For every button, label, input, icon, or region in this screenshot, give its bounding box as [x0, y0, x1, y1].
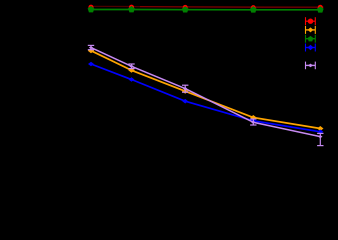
- orange series line (descending): [91, 51, 320, 129]
- violet series line (descending): [91, 48, 320, 137]
- violet marker 1: [89, 46, 93, 49]
- green marker 5: [317, 6, 324, 12]
- violet marker 3: [183, 87, 187, 90]
- blue marker 2: [129, 77, 135, 82]
- legend entry green: [306, 35, 316, 43]
- violet error bar 5: [317, 133, 323, 145]
- legend entry red: [306, 17, 316, 25]
- red marker 4: [251, 5, 256, 10]
- legend entry blue: [306, 44, 316, 52]
- green marker 1: [88, 6, 95, 12]
- green marker 4: [250, 6, 257, 12]
- green series line (flat, top): [91, 9, 320, 11]
- violet error bar 2: [128, 64, 134, 69]
- violet error bar 4: [250, 119, 256, 125]
- blue marker 1: [88, 62, 94, 67]
- red marker 3: [183, 5, 188, 10]
- orange marker 1: [88, 48, 94, 53]
- red marker 5: [318, 5, 323, 10]
- violet error bar 3: [182, 85, 188, 92]
- blue marker 4: [250, 119, 256, 124]
- orange marker 5: [317, 126, 323, 131]
- green marker 2: [128, 6, 135, 12]
- violet marker 5: [318, 135, 322, 138]
- orange marker 3: [182, 89, 188, 94]
- legend entry violet: [306, 62, 316, 70]
- violet marker 4: [251, 121, 255, 124]
- red marker 2: [129, 5, 134, 10]
- blue series line (descending): [91, 64, 320, 132]
- legend entry orange: [306, 26, 316, 34]
- red marker 1: [88, 5, 93, 10]
- green marker 3: [182, 6, 189, 12]
- blue marker 3: [182, 99, 188, 104]
- violet marker 2: [129, 65, 133, 68]
- orange marker 4: [250, 115, 256, 120]
- blue marker 5: [317, 130, 323, 135]
- violet error bar 1: [88, 45, 94, 49]
- orange marker 2: [128, 68, 134, 73]
- red series line (flat, top): [91, 5, 140, 7]
